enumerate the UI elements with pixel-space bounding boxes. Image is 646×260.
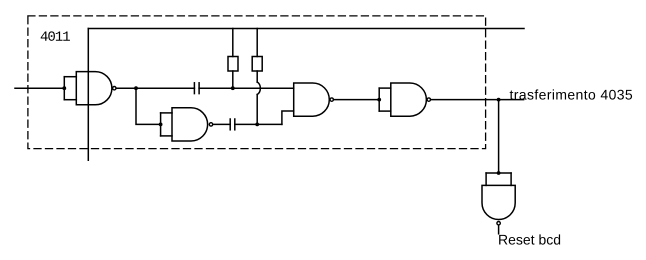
- label Reset bcd: [499, 234, 560, 244]
- node input gate 2: [159, 123, 163, 127]
- label 4011: [41, 31, 70, 41]
- wire input left: [15, 87, 64, 89]
- label trasferimento 4035: [510, 89, 632, 99]
- resistor R2: [252, 29, 262, 125]
- node input gate 1: [62, 86, 66, 90]
- wire gate1 output: [116, 87, 136, 89]
- wire gate4 output: [431, 99, 524, 101]
- node R1 junction: [231, 86, 235, 90]
- wire vertical rail through gate U1A: [87, 29, 89, 161]
- capacitor C2: [230, 119, 235, 130]
- node input gate 4: [377, 98, 381, 102]
- node A: [134, 86, 138, 90]
- resistor R1: [228, 29, 238, 89]
- wire node A down: [136, 88, 161, 124]
- wire node A to capacitor C1: [136, 87, 194, 89]
- nand gate U1C: [294, 83, 334, 116]
- node R2 junction: [255, 123, 259, 127]
- node input reset gate: [497, 171, 501, 175]
- nand gate U1B: [161, 108, 213, 141]
- wire gate3 output to gate4: [334, 99, 380, 101]
- capacitor C1: [194, 83, 199, 94]
- wire down to reset gate: [498, 100, 500, 173]
- wire C2 to step: [235, 123, 282, 125]
- wire C1 to gate 3 upper input: [199, 87, 294, 89]
- wire gate2 output: [213, 123, 230, 125]
- wire reset gate output stub: [498, 225, 500, 234]
- node trasferimento: [497, 98, 501, 102]
- nand gate U2A reset: [482, 173, 515, 225]
- wire top rail: [88, 28, 524, 30]
- nand gate U1D: [379, 83, 430, 116]
- nand gate U1A: [64, 72, 116, 105]
- wire step up to gate 3 lower input: [282, 111, 294, 124]
- IC boundary 4011 dashed box: [28, 16, 486, 149]
